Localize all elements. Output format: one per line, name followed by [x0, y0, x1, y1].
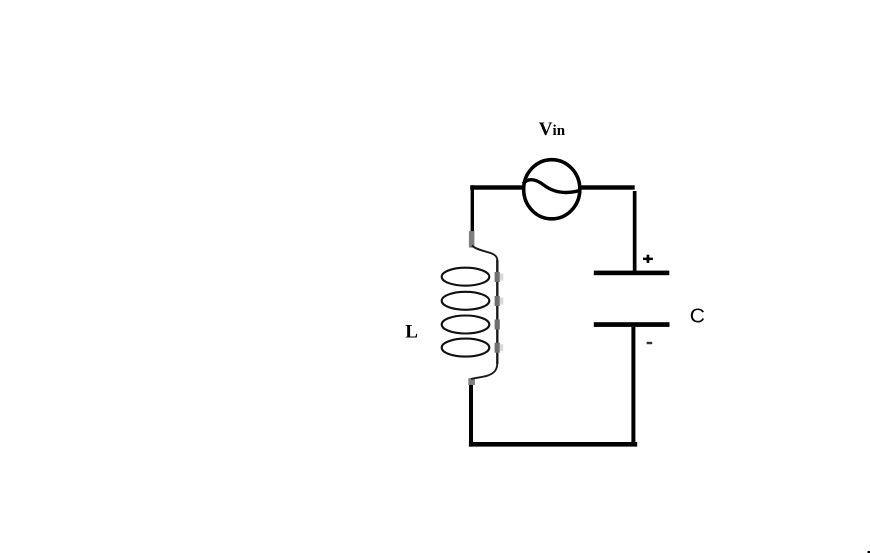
svg-text:Vin: Vin — [539, 119, 566, 140]
svg-text:C: C — [690, 304, 705, 327]
svg-text:L: L — [405, 321, 418, 342]
